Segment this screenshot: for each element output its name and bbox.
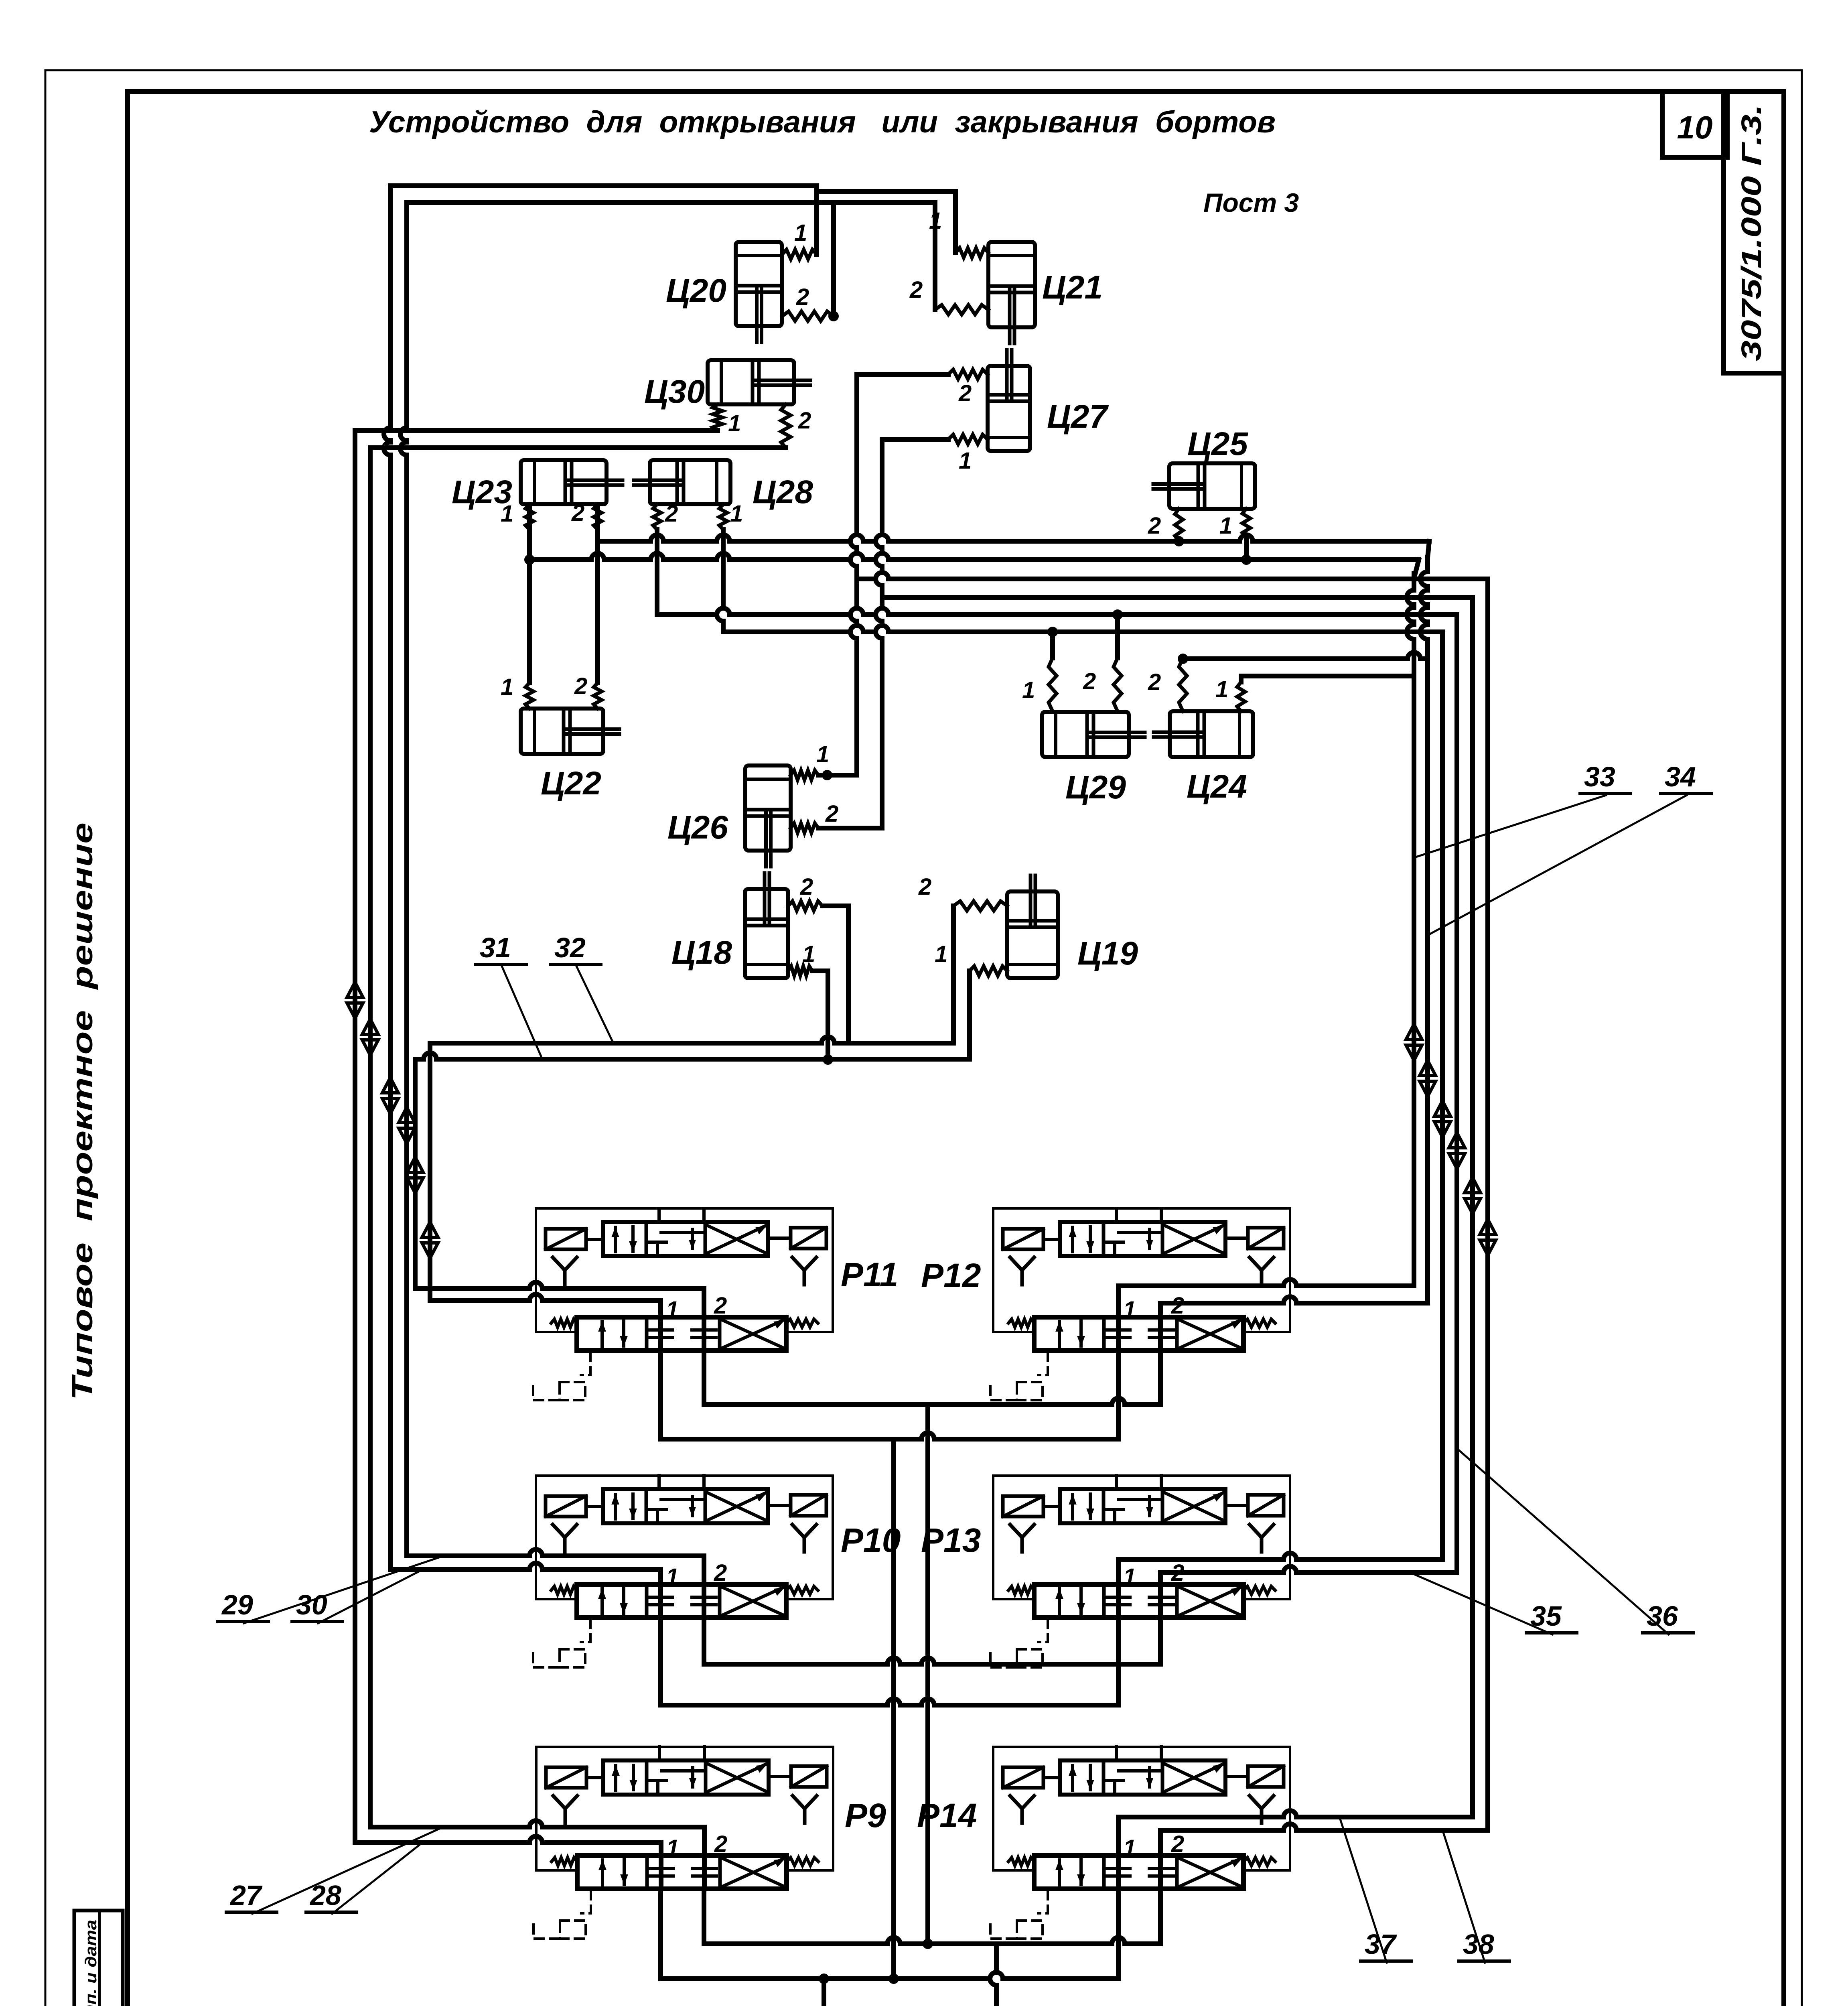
hose Ц26 port 2 xyxy=(791,823,818,833)
hose Ц24 port 1 xyxy=(1237,682,1245,711)
valve Р14 pilot solenoid left xyxy=(1003,1767,1060,1788)
valve Р11 pilot solenoid right xyxy=(768,1228,826,1249)
valve Р12 pilot spool xyxy=(1060,1222,1225,1256)
svg-text:2: 2 xyxy=(571,500,584,526)
flow arrows right bundle V4r xyxy=(1449,1133,1465,1169)
valve Р12 pilot lines xyxy=(1116,1208,1161,1222)
valve Р14 port labels xyxy=(1123,1831,1184,1861)
svg-text:1: 1 xyxy=(816,741,829,767)
valve Р9 port 2 line xyxy=(702,1827,707,1889)
svg-text:1: 1 xyxy=(794,220,807,246)
hose Ц22 port 1 xyxy=(525,683,534,709)
cylinder Ц27 body xyxy=(988,350,1030,451)
valve Р10 port 1 line xyxy=(658,1569,663,1618)
valve Р14 pilot solenoid right xyxy=(1225,1766,1284,1787)
svg-text:2: 2 xyxy=(909,277,923,303)
valve Р12 pilot solenoid left xyxy=(1003,1229,1060,1249)
valve Р14 springs xyxy=(1008,1858,1275,1866)
svg-text:2: 2 xyxy=(1148,669,1161,695)
flow arrows right bundle V3r xyxy=(1434,1101,1450,1137)
svg-text:33: 33 xyxy=(1584,761,1615,792)
svg-text:1: 1 xyxy=(501,501,513,527)
valve Р14 port 2 line xyxy=(1158,1830,1163,1889)
svg-text:Ц22: Ц22 xyxy=(541,765,601,802)
svg-text:34: 34 xyxy=(1665,761,1696,792)
svg-text:2: 2 xyxy=(800,874,813,900)
svg-text:1: 1 xyxy=(1123,1564,1136,1590)
svg-text:Устройство для открывания: Устройство для открывания или закрывания… xyxy=(369,105,1276,139)
wire Ц29.1 riser xyxy=(1050,632,1055,658)
valve Р9 vent Y left xyxy=(553,1796,577,1823)
svg-text:2: 2 xyxy=(1171,1293,1184,1319)
valve Р9 springs xyxy=(552,1858,818,1866)
hose Ц21 port 1 xyxy=(955,248,988,258)
hose Ц18 port 2 xyxy=(788,901,822,911)
valve Р10 pilot lines xyxy=(659,1476,704,1489)
hose Ц18 port 1 xyxy=(788,966,812,976)
net label 28 xyxy=(306,1844,421,1914)
svg-text:Ц30: Ц30 xyxy=(644,374,705,410)
junction mid column A end xyxy=(889,1974,899,1984)
net label 35 xyxy=(1412,1574,1577,1634)
wire Р11 port2 to Р12 port2 xyxy=(702,1350,706,1405)
svg-text:10: 10 xyxy=(1677,110,1713,145)
valve Р14 vent Y left xyxy=(1010,1796,1034,1823)
wire line L1575 Ц28.1 to right V3r xyxy=(723,625,1442,632)
wire Ц25.1 drop xyxy=(1244,538,1249,560)
svg-text:1: 1 xyxy=(959,448,972,474)
wire branch L1443 to right V6r xyxy=(857,573,1488,579)
svg-text:2: 2 xyxy=(798,408,811,434)
wire left bundle V3 to Р10 lower entry xyxy=(384,186,390,1569)
valve Р10 pilot spool xyxy=(603,1489,768,1523)
wire Ц23 port 1 column xyxy=(527,504,532,683)
valve Р13 pilot lines xyxy=(1116,1476,1161,1489)
valve Р9 vent Y right xyxy=(793,1796,817,1823)
svg-text:1: 1 xyxy=(666,1297,679,1323)
valve Р13 pilot spool xyxy=(1060,1489,1225,1523)
svg-text:Ц29: Ц29 xyxy=(1065,769,1126,806)
wire Ц28 port 2 drop xyxy=(653,504,661,530)
valve Р10 box xyxy=(536,1476,833,1599)
wire right bundle V3r to Р13 upper entry xyxy=(1440,632,1445,1559)
wire branch L1489 to right V5r xyxy=(882,595,1473,600)
wire mid column B xyxy=(925,1405,930,1944)
junction pump supply xyxy=(819,1974,829,1984)
wire right bundle V6r to Р14 lower entry xyxy=(1485,579,1490,1830)
document number strip 3075/1.000 Г.3 xyxy=(1724,92,1784,373)
hose Ц23 port 2 upper xyxy=(594,504,602,530)
valve Р13 springs xyxy=(1008,1586,1275,1594)
flow arrows right bundle V1r xyxy=(1406,1024,1422,1060)
valve Р11 box xyxy=(536,1208,833,1332)
svg-text:2: 2 xyxy=(796,284,809,310)
valve Р13 port labels xyxy=(1123,1560,1184,1590)
valve Р9 pilot solenoid right xyxy=(769,1766,827,1787)
wire left bundle V2 to Р9 upper entry xyxy=(368,448,373,1827)
wire Ц27.2 column to Ц26.1 xyxy=(857,372,948,377)
wire right bundle V4r to Р13 lower entry xyxy=(1454,615,1459,1573)
flow arrows right bundle V2r xyxy=(1420,1060,1436,1096)
cylinder Ц23 body xyxy=(521,460,623,504)
wire return line from manifold xyxy=(990,1944,996,2006)
svg-text:Пост 3: Пост 3 xyxy=(1203,188,1299,217)
valve Р11 vent Y left xyxy=(553,1257,577,1285)
flow arrows left bundle V4 xyxy=(399,1107,415,1143)
valve Р10 springs xyxy=(551,1586,818,1594)
svg-text:Ц27: Ц27 xyxy=(1047,398,1109,435)
hose Ц19 port 2 xyxy=(953,901,1007,911)
svg-text:28: 28 xyxy=(309,1880,341,1911)
valve Р10 vent Y right xyxy=(792,1525,816,1552)
junction Ц23.1 xyxy=(524,554,535,565)
svg-text:2: 2 xyxy=(574,673,587,699)
valve Р10 tank pilot dashed xyxy=(533,1619,590,1667)
valve Р12 springs xyxy=(1008,1319,1275,1327)
wire pump supply line xyxy=(822,1979,826,2006)
valve Р12 main spool xyxy=(1034,1317,1243,1350)
flow arrows left bundle V1 xyxy=(347,982,363,1018)
svg-text:36: 36 xyxy=(1647,1600,1678,1632)
valve Р11 pilot spool xyxy=(603,1222,768,1256)
wire line L1532 Ц28.2 to right V4r xyxy=(657,608,1457,615)
cylinder Ц28 body xyxy=(634,460,730,504)
net label 37 xyxy=(1340,1818,1411,1963)
valve Р12 port 1 line xyxy=(1116,1286,1121,1350)
junction Ц25.2 xyxy=(1174,536,1184,546)
valve Р14 pilot lines xyxy=(1116,1747,1161,1760)
valve Р11 vent Y right xyxy=(792,1257,816,1285)
valve Р13 main spool xyxy=(1034,1584,1243,1618)
valve Р9 pilot spool xyxy=(603,1760,769,1795)
valve Р12 port labels xyxy=(1123,1293,1184,1323)
wire Р10 port2 to Р13 port2 xyxy=(702,1618,706,1664)
valve Р9 tank pilot dashed xyxy=(534,1890,591,1939)
hose Ц19 port 1 xyxy=(970,966,1007,976)
valve Р13 port 2 line xyxy=(1158,1573,1163,1618)
hose Ц23 port 1 upper xyxy=(525,504,534,530)
svg-text:2: 2 xyxy=(958,380,972,406)
svg-text:27: 27 xyxy=(229,1880,263,1911)
cylinder Ц19 body xyxy=(1007,875,1058,978)
svg-text:1: 1 xyxy=(730,501,743,527)
net label 38 xyxy=(1443,1831,1509,1963)
hose Ц20 port 2 xyxy=(782,311,834,321)
svg-text:2: 2 xyxy=(1171,1560,1184,1586)
wire Ц28 port 1 drop xyxy=(719,504,727,530)
valve Р11 main spool xyxy=(577,1317,786,1350)
svg-text:Ц24: Ц24 xyxy=(1187,768,1247,805)
valve Р10 port 2 line xyxy=(702,1556,706,1618)
valve Р10 pilot solenoid right xyxy=(768,1495,826,1516)
valve Р10 pilot solenoid left xyxy=(546,1496,603,1517)
svg-text:2: 2 xyxy=(1148,513,1161,539)
valve Р13 box xyxy=(993,1476,1290,1599)
valve Р14 port 1 line xyxy=(1116,1817,1121,1889)
svg-text:1: 1 xyxy=(1022,677,1035,703)
wire line L1685 Ц24.1 to right V1r xyxy=(1241,676,1414,682)
valve Р13 port 1 line xyxy=(1116,1559,1121,1618)
valve Р12 vent Y left xyxy=(1010,1257,1034,1285)
junction Ц26.1 xyxy=(822,770,832,780)
wire line B Ц20.2-Ц21.2 to left bundle xyxy=(407,200,834,205)
net label 32 xyxy=(550,932,614,1044)
hose Ц27 port 1 xyxy=(948,434,988,444)
valve Р14 tank pilot dashed xyxy=(990,1890,1048,1939)
flow arrows right bundle V6r xyxy=(1480,1219,1496,1255)
valve Р14 box xyxy=(993,1747,1290,1870)
valve Р9 port 1 line xyxy=(659,1843,663,1889)
valve Р11 tank pilot dashed xyxy=(533,1352,590,1400)
svg-text:1: 1 xyxy=(1123,1297,1136,1323)
valve Р11 springs xyxy=(551,1319,818,1327)
svg-text:3075/1.000 Г.3.: 3075/1.000 Г.3. xyxy=(1736,104,1767,361)
svg-text:1: 1 xyxy=(728,410,741,437)
valve Р12 vent Y right xyxy=(1250,1257,1274,1285)
wire mid column A xyxy=(891,1439,896,1979)
valve Р13 pilot solenoid right xyxy=(1225,1495,1284,1516)
wire Ц27.1 column to Ц26.2 xyxy=(882,437,948,442)
cylinder Ц24 body xyxy=(1154,711,1253,757)
svg-text:Ц18: Ц18 xyxy=(671,934,732,971)
net label 33 xyxy=(1415,761,1631,857)
svg-text:Ц26: Ц26 xyxy=(667,809,728,846)
hose Ц20 port 1 xyxy=(782,250,817,259)
wire Ц18.1 to line 32 xyxy=(812,971,828,1060)
hose Ц24 port 2 xyxy=(1179,658,1187,711)
net label 27 xyxy=(226,1828,441,1914)
valve Р13 pilot solenoid left xyxy=(1003,1496,1060,1517)
valve Р12 box xyxy=(993,1208,1290,1332)
valve Р11 port labels xyxy=(666,1293,727,1323)
flow arrows left bundle V3 xyxy=(382,1078,398,1114)
hose Ц26 port 1 xyxy=(791,770,818,780)
junction Ц18.1 xyxy=(823,1054,833,1065)
svg-text:2: 2 xyxy=(825,801,838,827)
flow arrows right bundle V5r xyxy=(1465,1178,1481,1214)
cylinder Ц18 body xyxy=(745,873,788,978)
valve Р13 vent Y right xyxy=(1250,1525,1274,1552)
svg-text:Ц28: Ц28 xyxy=(753,474,813,510)
svg-text:Р11: Р11 xyxy=(841,1256,898,1293)
hose Ц25 port 1 xyxy=(1242,509,1250,538)
wire line 32 lower Ц18/Ц19 xyxy=(415,1053,970,1059)
valve Р11 port 2 line xyxy=(702,1289,706,1350)
flow arrows left bundle V2 xyxy=(362,1019,378,1055)
wire left bundle V6 to Р11 lower entry xyxy=(428,1043,432,1301)
wire left bundle V5 to Р11 upper entry xyxy=(413,1059,418,1289)
hose Ц21 port 2 xyxy=(935,305,988,315)
wire Ц29.2 riser xyxy=(1115,615,1120,658)
cylinder Ц20 body xyxy=(736,242,782,342)
net label 36 xyxy=(1458,1449,1693,1634)
wire Ц26.1 link xyxy=(818,773,857,778)
wire line L1640 Ц24.2 to right V2r xyxy=(1178,654,1188,664)
valve Р10 vent Y left xyxy=(553,1525,577,1552)
wire left bundle V4 to Р10 upper entry xyxy=(400,203,407,1556)
svg-text:1: 1 xyxy=(1123,1835,1136,1861)
valve Р10 main spool xyxy=(577,1584,786,1618)
wire right bundle V2r to Р12 lower entry xyxy=(1428,541,1429,558)
wire Ц19 port 2 riser xyxy=(951,906,956,1043)
cylinder Ц25 body xyxy=(1153,463,1255,509)
cylinder Ц29 body xyxy=(1042,712,1145,757)
valve Р9 pilot solenoid left xyxy=(546,1767,603,1788)
valve Р14 pilot spool xyxy=(1060,1760,1225,1795)
wire line 31 upper Ц18/Ц19 xyxy=(430,1037,953,1043)
svg-text:2: 2 xyxy=(1171,1831,1184,1857)
sheet number box 10 xyxy=(1662,92,1727,157)
valve Р12 pilot solenoid right xyxy=(1225,1228,1284,1249)
wire Р10 port1 to Р13 port1 xyxy=(658,1618,663,1705)
cylinder Ц30 body xyxy=(708,360,810,404)
svg-text:1: 1 xyxy=(666,1835,679,1861)
svg-text:2: 2 xyxy=(1083,668,1096,694)
wire Ц30.2 to left bundle V2 xyxy=(370,445,786,450)
valve Р9 pilot lines xyxy=(659,1747,704,1760)
svg-text:1: 1 xyxy=(935,941,947,967)
hose Ц30 port 2 xyxy=(781,404,791,448)
net label 29 xyxy=(218,1557,441,1623)
left stamp column xyxy=(74,1911,123,2006)
wire Ц19 port 1 riser xyxy=(967,971,972,1059)
valve Р9 main spool xyxy=(577,1856,787,1889)
svg-text:Ц21: Ц21 xyxy=(1042,269,1103,306)
flow arrows left bundle V5 xyxy=(407,1157,423,1193)
wire line A Ц20.1-Ц21.1 to left bundle xyxy=(390,186,955,253)
junction Ц20 port 2 xyxy=(828,311,839,321)
valve Р11 port 1 line xyxy=(658,1301,663,1350)
svg-text:Типовое проектное решение: Типовое проектное решение xyxy=(67,822,99,1400)
wire Ц23 port 2 column xyxy=(595,504,600,683)
svg-text:Ц19: Ц19 xyxy=(1077,935,1138,972)
valve Р14 main spool xyxy=(1034,1856,1243,1889)
wire Ц26.2 link xyxy=(818,826,882,830)
valve Р11 pilot lines xyxy=(659,1208,704,1222)
svg-text:Р9: Р9 xyxy=(845,1797,886,1834)
wire line L1349 Ц23.2-Ц25.2 to right V2r xyxy=(598,535,1429,541)
hose Ц29 port 1 xyxy=(1049,658,1057,711)
svg-text:2: 2 xyxy=(665,501,678,527)
flow arrows left bundle V6 xyxy=(422,1222,438,1258)
cylinder Ц26 body xyxy=(745,765,791,867)
valve Р12 port 2 line xyxy=(1158,1303,1163,1350)
svg-text:Ц20: Ц20 xyxy=(666,272,726,309)
junction Ц29.1 xyxy=(1047,627,1058,637)
wire Ц18.2 to line 31 xyxy=(822,906,848,1043)
hose Ц30 port 1 xyxy=(713,404,722,430)
svg-text:1: 1 xyxy=(501,674,513,700)
svg-text:2: 2 xyxy=(714,1831,727,1857)
wire Ц20 port 2 drop xyxy=(831,203,836,316)
valve Р10 port labels xyxy=(666,1560,727,1590)
net label 34 xyxy=(1428,761,1711,935)
valve Р12 tank pilot dashed xyxy=(990,1352,1048,1400)
wire right bundle V1r to Р12 upper entry xyxy=(1415,560,1419,574)
junction Ц29.2 xyxy=(1112,609,1123,620)
wire left bundle V1 to Р9 lower entry xyxy=(353,430,357,1843)
hose Ц29 port 2 xyxy=(1114,658,1122,711)
svg-text:2: 2 xyxy=(918,874,931,900)
svg-text:2: 2 xyxy=(714,1560,727,1586)
svg-text:1: 1 xyxy=(666,1564,679,1590)
svg-text:Подп. и дата: Подп. и дата xyxy=(82,1920,100,2006)
wire Ц20 port 1 drop xyxy=(814,186,819,254)
valve Р11 pilot solenoid left xyxy=(546,1229,603,1249)
hose Ц22 port 2 xyxy=(594,683,602,709)
hose Ц25 port 2 xyxy=(1175,509,1183,541)
hose Ц27 port 2 xyxy=(948,370,988,379)
valve Р9 port labels xyxy=(666,1831,727,1861)
wire Р9 port2 to Р14 port2 (return manifold) xyxy=(702,1889,706,1944)
svg-text:Ц25: Ц25 xyxy=(1187,426,1248,462)
svg-text:Р12: Р12 xyxy=(921,1257,981,1294)
svg-text:2: 2 xyxy=(714,1293,727,1319)
valve Р9 box xyxy=(536,1747,833,1870)
wire Р9 port1 to Р14 port1 (pressure manifold) xyxy=(658,1889,663,1979)
junction Ц25.1 xyxy=(1241,554,1252,565)
wire Ц30.1 to left bundle V1 xyxy=(355,428,718,433)
svg-text:31: 31 xyxy=(480,932,511,963)
valve Р13 tank pilot dashed xyxy=(990,1619,1048,1667)
wire Р11 port1 to Р12 port1 xyxy=(658,1350,663,1439)
svg-text:1: 1 xyxy=(802,941,815,967)
svg-text:30: 30 xyxy=(296,1589,327,1620)
wire right bundle V5r to Р14 upper entry xyxy=(1470,597,1475,1817)
svg-text:1: 1 xyxy=(1215,676,1228,703)
net label 30 xyxy=(292,1570,421,1623)
left stamp texts xyxy=(82,1920,100,2006)
valve Р13 vent Y left xyxy=(1010,1525,1034,1552)
cylinder Ц21 body xyxy=(988,242,1035,343)
net label 31 xyxy=(476,932,542,1059)
svg-text:32: 32 xyxy=(554,932,586,963)
svg-text:29: 29 xyxy=(221,1589,253,1620)
svg-text:1: 1 xyxy=(1219,513,1232,539)
junction mid column B end xyxy=(923,1939,933,1949)
cylinder Ц22 body xyxy=(521,709,619,754)
wire line L1395 Ц23.1-Ц25.1 to right V1r xyxy=(529,553,1419,560)
valve Р14 vent Y right xyxy=(1250,1796,1274,1823)
